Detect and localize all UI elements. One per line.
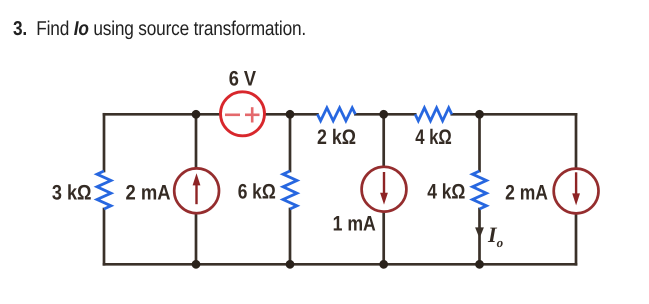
- svg-text:4 kΩ: 4 kΩ: [427, 180, 465, 203]
- svg-text:1 mA: 1 mA: [333, 212, 376, 235]
- svg-text:o: o: [497, 235, 504, 250]
- svg-text:2 kΩ: 2 kΩ: [317, 126, 356, 149]
- svg-text:4 kΩ: 4 kΩ: [415, 126, 452, 149]
- svg-text:6 kΩ: 6 kΩ: [238, 181, 276, 204]
- svg-text:2 mA: 2 mA: [505, 182, 548, 205]
- svg-text:3 kΩ: 3 kΩ: [52, 182, 92, 205]
- svg-text:6 V: 6 V: [229, 68, 256, 91]
- svg-text:2 mA: 2 mA: [126, 182, 171, 205]
